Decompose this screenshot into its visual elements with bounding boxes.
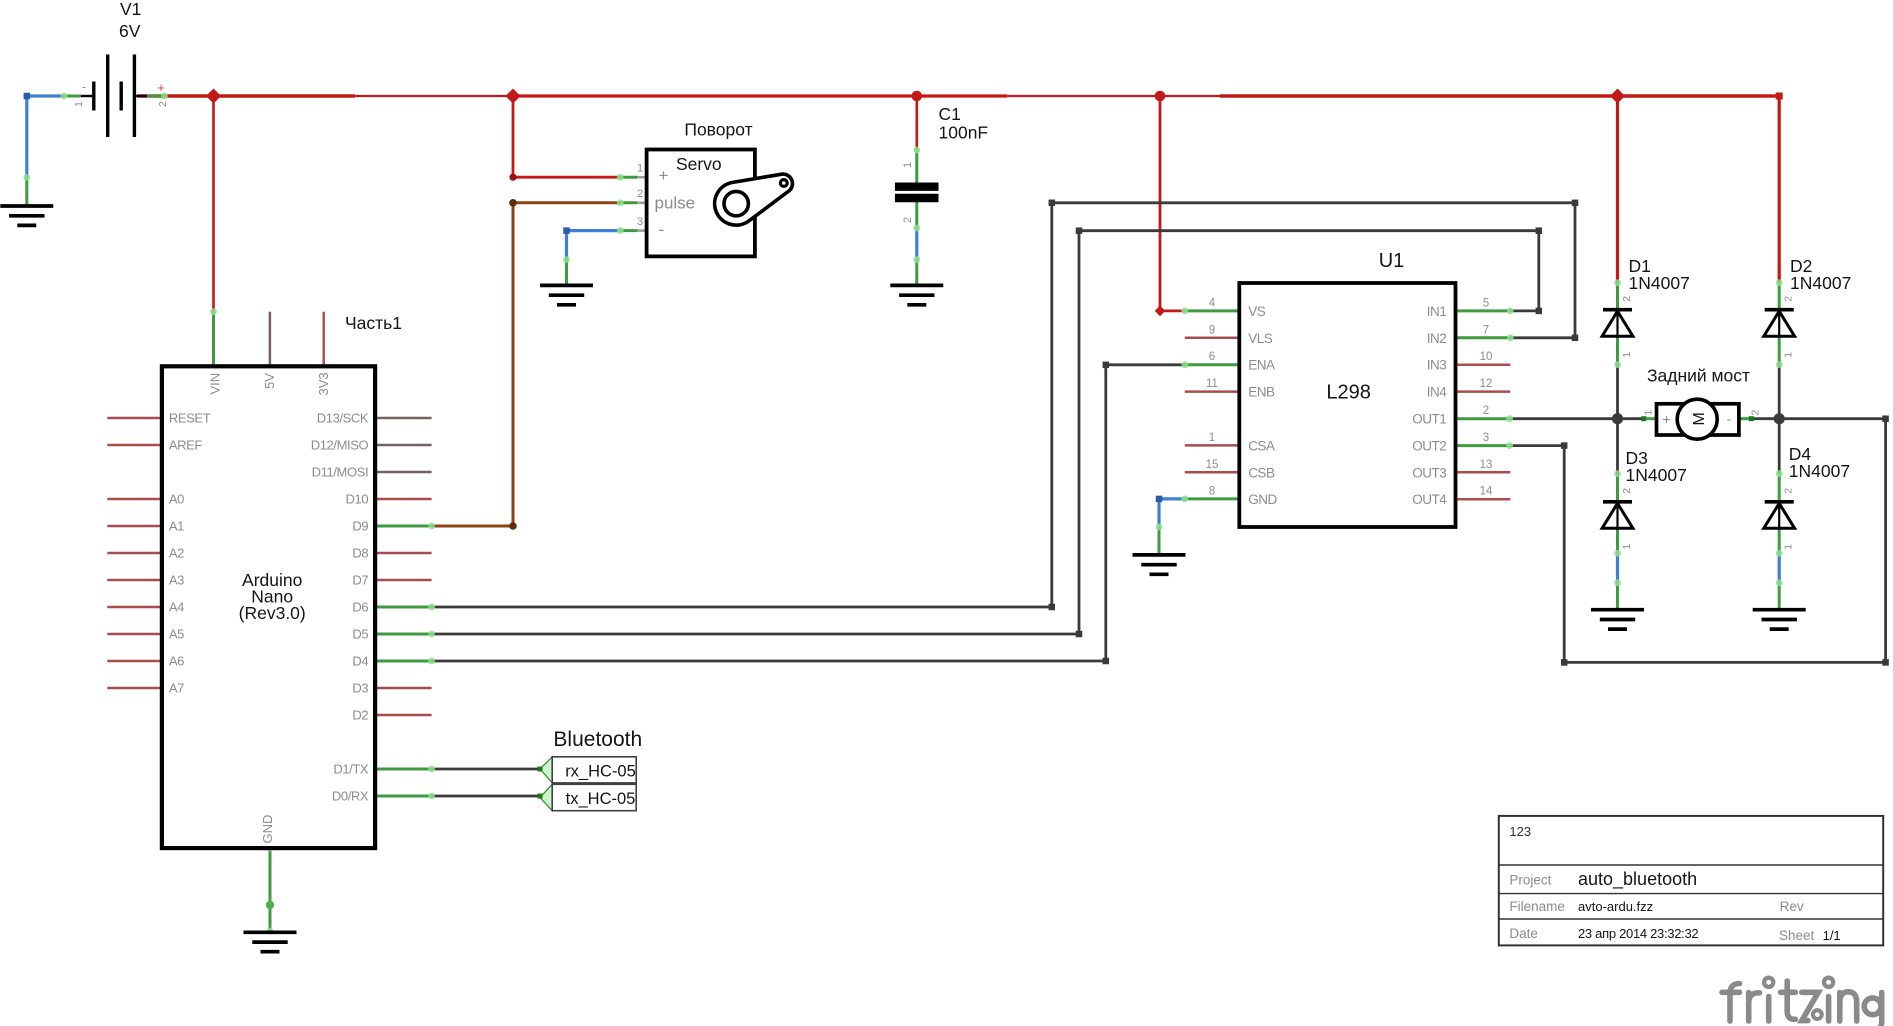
wire battery negative <box>27 96 64 177</box>
wire D4 to ENA <box>432 365 1185 661</box>
ground L298 <box>1133 555 1186 574</box>
svg-text:Rev: Rev <box>1780 899 1804 914</box>
arduino right stubs <box>375 498 432 501</box>
ground pin leg servo <box>565 258 568 285</box>
svg-text:123: 123 <box>1509 824 1531 839</box>
svg-text:CSA: CSA <box>1248 438 1275 453</box>
wire D9 to servo pulse <box>432 203 621 526</box>
svg-text:A6: A6 <box>169 654 184 669</box>
svg-text:1: 1 <box>1621 544 1633 550</box>
svg-text:A5: A5 <box>169 627 184 642</box>
black bend points <box>1049 604 1056 611</box>
svg-text:Поворот: Поворот <box>684 120 752 140</box>
diode D4 1N4007 <box>1764 444 1850 550</box>
ground pin leg battery <box>25 176 28 205</box>
svg-text:D12/MISO: D12/MISO <box>311 438 369 453</box>
svg-text:15: 15 <box>1206 459 1219 471</box>
svg-text:1N4007: 1N4007 <box>1629 273 1690 293</box>
svg-text:Sheet: Sheet <box>1779 928 1815 943</box>
svg-text:1: 1 <box>1783 352 1795 358</box>
svg-text:1: 1 <box>637 163 643 175</box>
svg-text:10: 10 <box>1480 351 1493 363</box>
svg-text:ENA: ENA <box>1248 358 1275 373</box>
svg-text:ENB: ENB <box>1248 385 1275 400</box>
svg-text:2: 2 <box>1621 296 1633 302</box>
svg-text:D10: D10 <box>346 492 369 507</box>
svg-text:IN2: IN2 <box>1427 331 1447 346</box>
svg-text:100nF: 100nF <box>939 123 989 143</box>
wire motor pin1 <box>1618 417 1644 420</box>
svg-text:OUT1: OUT1 <box>1412 412 1446 427</box>
svg-text:1/1: 1/1 <box>1823 928 1841 943</box>
svg-text:2: 2 <box>1483 405 1489 417</box>
arduino green pin legs <box>375 525 432 528</box>
svg-text:A3: A3 <box>169 573 184 588</box>
servo U2 Поворот <box>637 120 793 257</box>
svg-text:pulse: pulse <box>655 194 696 213</box>
svg-text:3: 3 <box>1483 432 1489 444</box>
wire OUT2 to motor return <box>1510 419 1886 663</box>
terminal dots <box>61 93 68 100</box>
svg-text:1: 1 <box>73 101 85 107</box>
battery V1 <box>73 0 169 137</box>
node B motor right junction <box>1774 413 1785 424</box>
ground D4 <box>1753 610 1806 629</box>
ground battery <box>0 206 53 225</box>
svg-text:A1: A1 <box>169 519 184 534</box>
svg-text:1: 1 <box>1209 432 1215 444</box>
svg-text:VLS: VLS <box>1248 331 1273 346</box>
svg-text:1: 1 <box>1783 544 1795 550</box>
svg-text:CSB: CSB <box>1248 465 1275 480</box>
svg-text:3: 3 <box>637 216 643 228</box>
svg-text:D7: D7 <box>352 573 368 588</box>
svg-text:8: 8 <box>1209 486 1215 498</box>
wire D6 to IN2 <box>432 203 1575 607</box>
svg-text:D9: D9 <box>352 519 368 534</box>
svg-text:1: 1 <box>1643 410 1655 416</box>
wire D3 to ground <box>1616 553 1619 583</box>
svg-text:D1/TX: D1/TX <box>333 762 369 777</box>
svg-text:OUT2: OUT2 <box>1412 438 1446 453</box>
svg-text:2: 2 <box>157 101 169 107</box>
ground servo <box>540 285 593 304</box>
wire C1 drop <box>915 96 918 150</box>
svg-text:D13/SCK: D13/SCK <box>317 411 369 426</box>
svg-text:5: 5 <box>1483 297 1489 309</box>
wire VIN drop <box>212 96 215 312</box>
svg-text:6: 6 <box>1209 351 1215 363</box>
svg-text:D5: D5 <box>352 627 368 642</box>
diode D3 1N4007 <box>1602 448 1687 550</box>
node A motor left junction <box>1612 413 1623 424</box>
servo pin legs <box>620 176 637 179</box>
svg-text:7: 7 <box>1483 324 1489 336</box>
title block <box>1499 816 1883 946</box>
svg-text:D11/MOSI: D11/MOSI <box>312 465 369 480</box>
svg-text:VS: VS <box>1248 304 1266 319</box>
battery pin legs <box>62 95 81 98</box>
arduino nano Часть1 <box>162 313 402 848</box>
ground arduino <box>244 932 297 951</box>
svg-text:A7: A7 <box>169 681 184 696</box>
wire D1 drop <box>1616 96 1619 283</box>
svg-text:U1: U1 <box>1379 250 1405 272</box>
svg-text:auto_bluetooth: auto_bluetooth <box>1578 869 1697 890</box>
svg-text:D4: D4 <box>352 654 368 669</box>
wire L298 GND to ground <box>1159 499 1185 527</box>
arduino 5V stub <box>269 312 272 367</box>
wire D5 to IN1 <box>432 231 1539 634</box>
arduino 3V3 stub <box>322 312 325 367</box>
svg-text:+: + <box>659 166 669 185</box>
svg-text:IN3: IN3 <box>1427 358 1447 373</box>
motor pin legs <box>1644 417 1657 420</box>
svg-text:Date: Date <box>1509 926 1538 941</box>
arduino GND pin leg <box>269 848 272 931</box>
wire D1/TX to rx_HC-05 <box>432 768 540 771</box>
svg-text:(Rev3.0): (Rev3.0) <box>239 603 306 623</box>
diode D2 1N4007 <box>1764 256 1852 358</box>
svg-text:11: 11 <box>1206 378 1218 390</box>
svg-text:-: - <box>1727 411 1732 427</box>
node rail junctions <box>206 89 221 104</box>
blue bend points <box>24 93 31 100</box>
VIN pin leg <box>212 312 215 367</box>
C1 pin legs <box>915 149 918 183</box>
svg-text:VIN: VIN <box>208 373 223 395</box>
svg-text:2: 2 <box>1783 296 1795 302</box>
svg-text:D0/RX: D0/RX <box>332 789 369 804</box>
svg-text:13: 13 <box>1480 459 1493 471</box>
svg-text:2: 2 <box>1783 488 1795 494</box>
svg-text:+: + <box>157 80 165 95</box>
svg-text:D8: D8 <box>352 546 368 561</box>
svg-text:6V: 6V <box>119 21 141 41</box>
svg-text:A4: A4 <box>169 600 184 615</box>
wire servo minus <box>567 231 621 260</box>
svg-text:IN1: IN1 <box>1427 304 1447 319</box>
svg-text:1: 1 <box>902 162 914 168</box>
svg-text:A2: A2 <box>169 546 184 561</box>
svg-text:+: + <box>1662 411 1670 427</box>
diode pin legs <box>1616 283 1619 308</box>
capacitor C1 100nF <box>895 104 988 223</box>
bluetooth net labels <box>538 728 643 811</box>
svg-text:12: 12 <box>1480 378 1493 390</box>
svg-text:RESET: RESET <box>169 411 211 426</box>
svg-text:2: 2 <box>637 188 643 200</box>
wire D0/RX to tx_HC-05 <box>432 795 540 798</box>
svg-text:A0: A0 <box>169 492 184 507</box>
svg-text:2: 2 <box>1621 488 1633 494</box>
svg-text:5V: 5V <box>262 373 277 389</box>
svg-text:-: - <box>82 79 86 94</box>
svg-text:1: 1 <box>1621 352 1633 358</box>
svg-text:23 апр 2014 23:32:32: 23 апр 2014 23:32:32 <box>1578 926 1698 941</box>
svg-text:IN4: IN4 <box>1427 385 1448 400</box>
svg-text:Bluetooth: Bluetooth <box>553 728 642 751</box>
svg-text:V1: V1 <box>120 0 141 19</box>
L298 ground pin leg <box>1158 526 1161 554</box>
svg-text:AREF: AREF <box>169 438 203 453</box>
brown bend points <box>509 199 517 207</box>
svg-text:rx_HC-05: rx_HC-05 <box>565 763 636 781</box>
wire servo plus <box>513 96 620 177</box>
svg-text:avto-ardu.fzz: avto-ardu.fzz <box>1578 899 1653 914</box>
svg-text:D3: D3 <box>352 681 368 696</box>
svg-text:L298: L298 <box>1326 382 1371 404</box>
ground D3 <box>1591 610 1644 629</box>
wire OUT1 to motor <box>1510 417 1618 420</box>
svg-text:C1: C1 <box>939 104 961 124</box>
diode D1 1N4007 <box>1602 256 1690 358</box>
svg-text:OUT4: OUT4 <box>1412 492 1447 507</box>
wire D2 anode to node B <box>1778 365 1781 419</box>
svg-text:Servo: Servo <box>676 154 722 174</box>
svg-text:D2: D2 <box>352 708 368 723</box>
svg-text:Project: Project <box>1509 873 1551 888</box>
arduino left stubs <box>107 417 162 420</box>
svg-text:1N4007: 1N4007 <box>1790 273 1851 293</box>
svg-text:GND: GND <box>1248 492 1277 507</box>
svg-text:3V3: 3V3 <box>316 372 331 395</box>
wire VS drop <box>1160 96 1185 311</box>
motor M1 Задний мост <box>1641 366 1761 440</box>
svg-text:-: - <box>659 220 665 239</box>
L298 green pin legs <box>1185 309 1240 312</box>
ground C1 <box>890 285 943 304</box>
svg-text:4: 4 <box>1209 297 1216 309</box>
svg-text:2: 2 <box>1750 410 1762 416</box>
wire node A to D3 <box>1616 419 1619 474</box>
wire power rail +6V <box>137 94 355 97</box>
svg-text:GND: GND <box>260 815 275 844</box>
svg-text:14: 14 <box>1480 486 1493 498</box>
wire C1 to ground <box>915 228 918 260</box>
svg-text:2: 2 <box>902 217 914 223</box>
wire D1 anode to node A <box>1616 365 1619 419</box>
svg-text:Задний мост: Задний мост <box>1647 366 1750 386</box>
fritzing logo <box>1722 978 1882 1026</box>
svg-text:D6: D6 <box>352 600 368 615</box>
svg-text:Часть1: Часть1 <box>345 313 402 333</box>
svg-text:1N4007: 1N4007 <box>1789 461 1850 481</box>
svg-text:tx_HC-05: tx_HC-05 <box>566 790 636 808</box>
wire D4 to ground <box>1778 553 1781 583</box>
wire motor pin2 <box>1751 417 1779 420</box>
svg-text:Filename: Filename <box>1509 899 1565 914</box>
wire node B to D4 <box>1778 419 1781 474</box>
L298 unconnected stubs <box>1185 337 1240 340</box>
svg-text:M: M <box>1691 412 1708 425</box>
svg-text:1N4007: 1N4007 <box>1626 465 1687 485</box>
arduino gnd wire junction <box>266 901 274 909</box>
svg-text:OUT3: OUT3 <box>1412 465 1446 480</box>
svg-text:9: 9 <box>1209 324 1215 336</box>
op-amp U1 L298 <box>1206 250 1493 527</box>
